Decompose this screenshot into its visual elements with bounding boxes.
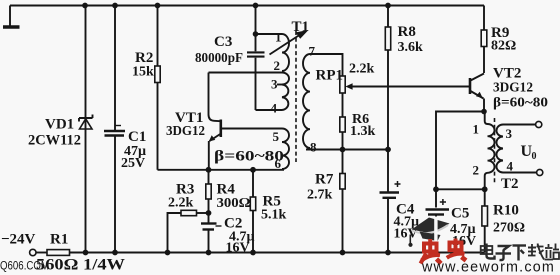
transformer T1 winding 5-6 [282,129,289,170]
transformer T1 winding 1-4 [277,34,289,110]
svg-text:3: 3 [506,126,513,141]
wire emitter to C5 branch [436,112,484,208]
svg-text:2.2k: 2.2k [349,62,375,77]
svg-text:3DG12: 3DG12 [493,81,533,96]
resistor R7 [340,150,345,253]
svg-text:300Ω: 300Ω [217,196,251,211]
watermark bug char 2 [447,239,466,261]
svg-text:80000pF: 80000pF [195,51,243,66]
svg-text:560Ω 1/4W: 560Ω 1/4W [36,257,125,274]
transformer T1 core [295,31,297,162]
capacitor C3 [247,6,265,111]
svg-text:1: 1 [473,122,480,137]
label U0 [521,143,537,162]
capacitor C1 [104,126,125,136]
svg-text:15k: 15k [132,65,154,80]
capacitor C2 [201,213,222,253]
svg-text:C3: C3 [214,34,232,50]
svg-text:4: 4 [271,101,278,116]
transformer T2 winding 1-2 [485,112,495,190]
watermark wire gap [434,217,437,243]
svg-text:3DG12: 3DG12 [166,124,205,139]
svg-text:2.2k: 2.2k [168,196,194,211]
resistor R8 [385,6,390,192]
wire pin7 to RP1 [310,54,343,76]
node dots y189 [433,186,488,192]
resistor R5 [250,170,255,253]
svg-text:270Ω: 270Ω [493,221,525,236]
wire T1 pin1 stub [256,33,283,35]
svg-text:C1: C1 [128,129,146,145]
svg-text:82Ω: 82Ω [491,39,516,54]
svg-text:6: 6 [275,156,282,171]
node dot R3R4C2 [206,210,212,216]
svg-text:C5: C5 [451,206,469,222]
svg-text:VT2: VT2 [493,66,521,82]
terminal circle -24V [30,249,36,255]
wire bottom rail [70,252,485,254]
svg-text:VD1: VD1 [45,117,74,133]
svg-text:−24V: −24V [1,232,36,248]
resistor R6 [340,93,345,150]
svg-text:7: 7 [309,44,316,59]
transistor VT1 [209,73,283,170]
capacitor C5 [426,199,450,253]
svg-text:5.1k: 5.1k [261,208,287,223]
zener diode VD1 [79,115,93,130]
terminal circle out bottom [537,169,543,175]
transformer T2 winding 3-4 [497,125,537,173]
transformer T1 winding 7-8 [303,54,310,150]
wire top rail [10,5,484,7]
transistor VT2 [470,74,484,112]
svg-text:3: 3 [271,77,278,92]
wire emitter bus y170 [158,169,285,171]
wire C1 branch [114,6,116,253]
resistor R9 [481,6,487,74]
wire VT1 base / T1 pin2 [209,72,283,74]
adjust arrow T1 [270,30,309,55]
resistor R2 [155,6,160,170]
resistor R1 [36,250,69,256]
resistor R4 [206,170,211,213]
wire T1 pin4 stub [256,109,283,111]
chassis terminal top-left [3,6,20,28]
node dots pin8 bus [340,147,391,153]
potentiometer RP1 [340,76,470,93]
svg-text:1.3k: 1.3k [350,124,376,139]
svg-text:2CW112: 2CW112 [28,133,81,149]
watermark bug char 1 [421,239,442,264]
resistor R10 [482,189,488,252]
svg-text:25V: 25V [121,156,145,171]
svg-text:2: 2 [274,58,281,73]
svg-text:0: 0 [532,151,537,162]
svg-text:1: 1 [275,30,282,45]
svg-text:β=60~80: β=60~80 [493,96,548,111]
svg-text:R10: R10 [493,203,519,219]
node dot emitter VT2 [481,109,487,115]
svg-text:T2: T2 [501,176,519,192]
svg-text:8: 8 [310,140,317,155]
node dots y170 [206,167,256,173]
svg-text:R7: R7 [315,172,334,188]
capacitor C4 [380,181,401,253]
watermark cap logo [408,218,449,247]
svg-text:4: 4 [507,159,514,174]
node bottom dots [83,250,439,256]
svg-text:3.6k: 3.6k [398,40,424,55]
wire pin8 bus [306,149,388,151]
svg-text:5: 5 [273,129,280,144]
svg-text:R1: R1 [50,232,68,248]
svg-text:2.7k: 2.7k [307,188,333,203]
svg-text:RP1: RP1 [316,68,344,84]
wire C5 to T2 pin2 [436,188,485,190]
resistor R3 [168,210,209,252]
svg-text:R8: R8 [398,24,416,40]
terminal circle out top [536,121,542,127]
svg-text:www.eeworm.com: www.eeworm.com [421,260,555,275]
svg-text:2: 2 [473,163,480,178]
node top dots [82,3,391,9]
node dot pin1 [253,31,259,37]
wire VD1 branch [85,6,87,253]
watermark text dianzi xiazaizhan [481,244,559,261]
transformer T2 core [494,118,496,185]
svg-text:β=60~80: β=60~80 [214,149,284,165]
